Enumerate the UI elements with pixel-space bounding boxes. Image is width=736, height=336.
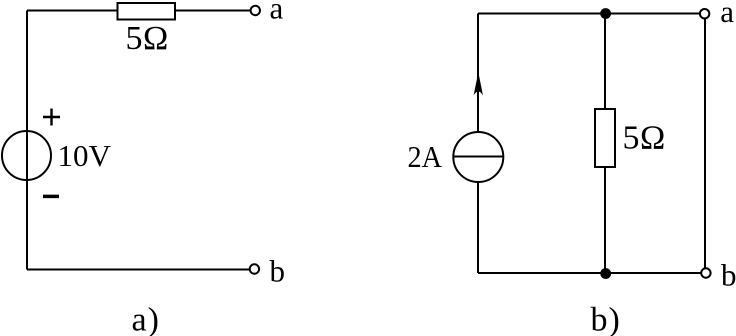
wire: resistor to terminal a [175,10,251,12]
wire: circuit b left vertical upper [477,14,479,133]
svg-text:5Ω: 5Ω [126,20,169,57]
plus sign of voltage source [43,109,60,126]
terminal b (circuit a) [250,264,259,273]
arrow of current source (up) [474,72,483,96]
wire: circuit b left vertical lower [477,182,479,273]
wire: circuit b right vertical a-b [704,14,706,273]
svg-text:b: b [270,254,286,289]
wire: circuit a top, left corner to resistor [27,10,118,12]
terminal b (circuit b) [701,268,710,277]
minus sign of voltage source [43,195,59,199]
svg-text:5Ω: 5Ω [623,120,666,157]
voltage source US 10V (circle) [2,131,51,180]
junction dot bottom (circuit b) [600,268,611,279]
svg-text:b): b) [591,302,621,336]
svg-text:b: b [721,258,736,293]
terminal a (circuit b) [700,9,709,18]
resistor R 5ohm (circuit a, horizontal) [118,3,176,20]
resistor R 5ohm (circuit b, vertical) [595,109,615,167]
wire: circuit b middle branch upper [604,14,606,110]
wire: circuit a left vertical through source [26,11,28,270]
wire: circuit a bottom [27,269,249,271]
current source IS 2A (circle) [453,132,503,182]
junction dot top (circuit b) [600,8,611,19]
terminal a (circuit a) [251,6,260,15]
svg-text:2A: 2A [408,139,443,174]
svg-text:a: a [720,0,734,29]
wire: circuit b top [478,13,700,15]
svg-text:a: a [270,0,284,26]
wire: circuit b middle branch lower [604,167,606,273]
svg-text:a): a) [132,302,160,336]
svg-text:10V: 10V [58,138,112,173]
wire: circuit b bottom [478,272,701,274]
current source bar [453,156,503,158]
